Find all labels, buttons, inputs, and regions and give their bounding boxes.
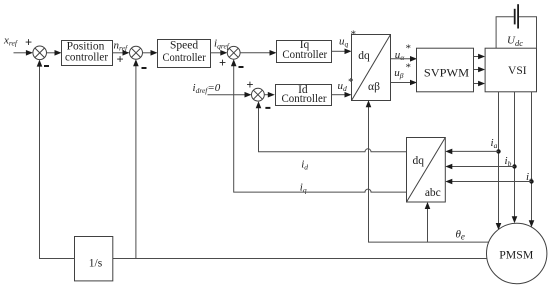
- svg-text:αβ: αβ: [368, 81, 380, 93]
- svg-text:+: +: [219, 56, 226, 70]
- svg-text:*: *: [348, 76, 354, 88]
- capacitor plate long: [517, 4, 519, 28]
- block dq/abc transform: [407, 138, 446, 203]
- block SVPWM: [417, 48, 474, 92]
- wire DC link left: [496, 17, 514, 49]
- wire input to summer S1: [14, 50, 33, 56]
- wire Id Controller to dq block (u_d): [332, 92, 352, 98]
- wire VSI phase c to PMSM: [529, 92, 535, 227]
- block Iq Controller: [277, 39, 332, 63]
- junction dot i_a: [496, 149, 500, 153]
- svg-text:+: +: [116, 53, 123, 67]
- wire theta_e from PMSM to dq/alphabeta block: [366, 100, 489, 242]
- wire position feedback from 1/s to S1: [37, 60, 75, 259]
- svg-text:controller: controller: [65, 51, 108, 63]
- wire DC link right: [519, 17, 537, 49]
- wire S2 to Speed Controller: [143, 50, 158, 56]
- summing junction S3: [227, 46, 240, 59]
- wire i_q feedback to S3: [231, 59, 407, 192]
- wire i_c to abc block: [445, 179, 531, 185]
- svg-text:abc: abc: [425, 187, 441, 199]
- summing junction S2: [130, 46, 143, 59]
- wire SVPWM to VSI 3: [474, 81, 486, 87]
- wire SVPWM to VSI 2: [474, 67, 486, 73]
- svg-text:SVPWM: SVPWM: [424, 68, 469, 80]
- wire speed feedback branch to S2: [133, 59, 139, 258]
- wire S1 to Position controller: [47, 50, 62, 56]
- svg-text:Speed: Speed: [170, 39, 198, 51]
- junction dot i_b: [512, 164, 516, 168]
- wire i_a to abc block: [445, 149, 498, 155]
- wire i_dref to summer S4: [208, 92, 252, 98]
- wire i_d feedback to S4: [256, 101, 407, 152]
- wire S3 to Iq Controller: [240, 50, 276, 56]
- wire i_b to abc block: [445, 164, 514, 170]
- node u_d*: [338, 76, 354, 93]
- svg-text:dq: dq: [358, 50, 370, 62]
- block VSI: [485, 48, 536, 92]
- block Id Controller: [276, 84, 332, 105]
- motor PMSM: [487, 223, 547, 283]
- node u_alpha*: [395, 43, 411, 63]
- wire S4 to Id Controller: [264, 92, 275, 98]
- wire Position controller to summer S2: [113, 50, 130, 56]
- wire SVPWM to VSI 1: [474, 54, 486, 60]
- wire VSI phase a to PMSM: [496, 92, 502, 230]
- wire dq block to SVPWM (u_beta): [391, 80, 418, 86]
- svg-text:Controller: Controller: [163, 52, 206, 64]
- node u_beta*: [394, 62, 411, 80]
- svg-text:+: +: [246, 78, 253, 92]
- svg-text:Controller: Controller: [282, 93, 327, 105]
- wire VSI phase b to PMSM: [512, 92, 518, 224]
- minus sign at S4: [265, 107, 270, 109]
- wire dq block to SVPWM (u_alpha): [391, 56, 418, 62]
- svg-text:*: *: [405, 43, 411, 55]
- minus sign at S3: [239, 66, 244, 68]
- wire Speed Controller to summer S3: [211, 50, 228, 56]
- svg-text:dq: dq: [412, 155, 424, 167]
- junction dot i_c: [529, 179, 533, 183]
- wire theta_e branch to dq/abc block: [425, 202, 431, 242]
- svg-text:*: *: [405, 62, 411, 74]
- block 1/s integrator: [75, 237, 113, 281]
- svg-text:1/s: 1/s: [89, 258, 103, 270]
- capacitor plate short: [514, 9, 516, 25]
- block Position controller: [62, 41, 113, 66]
- minus sign at S2: [142, 67, 147, 69]
- svg-text:VSI: VSI: [508, 65, 527, 77]
- svg-text:Controller: Controller: [282, 49, 327, 61]
- block dq/alphabeta transform: [352, 35, 391, 101]
- summing junction S1: [33, 46, 47, 60]
- summing junction S4: [252, 88, 265, 101]
- wire Iq Controller to dq block (u_q): [332, 49, 352, 55]
- svg-text:+: +: [25, 36, 32, 50]
- block Speed Controller: [158, 39, 211, 67]
- minus sign at S1: [44, 65, 49, 67]
- node u_q*: [339, 29, 356, 49]
- wire speed feedback from PMSM to 1/s: [113, 258, 487, 260]
- svg-text:PMSM: PMSM: [499, 249, 533, 261]
